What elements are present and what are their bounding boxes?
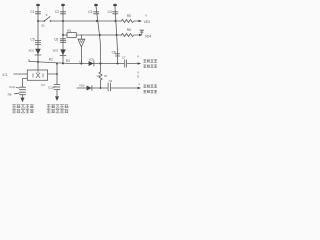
svg-text:R5: R5 (127, 14, 131, 18)
svg-text:C7: C7 (122, 56, 126, 60)
svg-text:V: V (145, 13, 147, 17)
svg-text:VD1: VD1 (28, 49, 34, 53)
svg-text:VD5: VD5 (89, 58, 95, 62)
svg-text:L1: L1 (79, 60, 83, 64)
svg-text:VD3: VD3 (144, 20, 151, 24)
svg-text:C8: C8 (112, 50, 116, 54)
svg-text:R7: R7 (104, 74, 108, 78)
svg-text:C2: C2 (55, 10, 59, 14)
svg-text:R2: R2 (49, 58, 53, 62)
svg-text:S1: S1 (41, 23, 45, 27)
svg-text:V: V (137, 55, 139, 59)
svg-text:C5: C5 (30, 38, 34, 42)
svg-text:IC1: IC1 (3, 73, 8, 77)
svg-text:VD4: VD4 (145, 34, 152, 38)
svg-text:C3: C3 (88, 10, 92, 14)
svg-text:VS: VS (97, 74, 101, 78)
svg-text:VD6: VD6 (79, 84, 85, 88)
svg-text:R3: R3 (66, 59, 70, 63)
svg-text:C1: C1 (30, 10, 34, 14)
svg-text:C9: C9 (109, 79, 113, 83)
svg-text:C6: C6 (54, 37, 58, 41)
svg-text:C11: C11 (48, 86, 54, 90)
svg-text:VD2: VD2 (53, 49, 59, 53)
svg-text:C10: C10 (9, 85, 15, 89)
svg-text:1: 1 (138, 82, 140, 86)
svg-text:D: D (137, 75, 139, 79)
svg-text:K1: K1 (41, 83, 45, 87)
svg-text:R1: R1 (67, 29, 71, 33)
svg-text:S: S (46, 13, 48, 17)
svg-text:C4: C4 (108, 10, 112, 14)
svg-text:R8: R8 (8, 92, 12, 96)
svg-text:R6: R6 (127, 28, 131, 32)
